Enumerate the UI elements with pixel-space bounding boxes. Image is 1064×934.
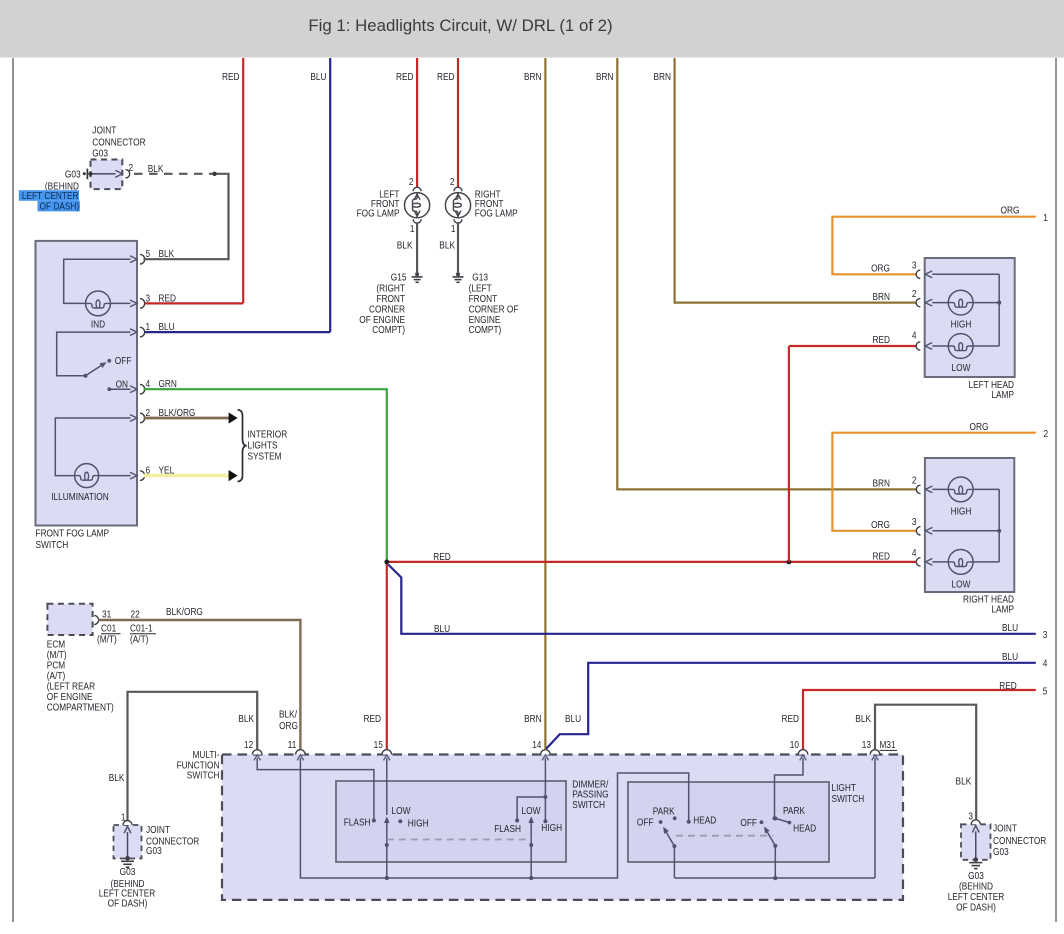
svg-text:OFF: OFF [637, 818, 654, 829]
svg-text:1: 1 [1043, 213, 1048, 224]
svg-text:12: 12 [244, 740, 254, 751]
svg-text:LEFT CENTER: LEFT CENTER [22, 191, 79, 202]
svg-text:RED: RED [873, 551, 891, 562]
svg-text:BLK: BLK [439, 241, 455, 252]
svg-text:BLU: BLU [434, 624, 450, 635]
svg-text:ORG: ORG [1001, 206, 1020, 217]
svg-text:IND: IND [91, 319, 105, 330]
svg-text:LEFT CENTER: LEFT CENTER [948, 892, 1005, 903]
svg-text:(M/T): (M/T) [47, 650, 67, 661]
svg-text:HEAD: HEAD [693, 816, 716, 827]
svg-text:15: 15 [374, 740, 384, 751]
svg-text:C01: C01 [101, 624, 117, 635]
svg-text:3: 3 [146, 293, 151, 304]
svg-text:OF DASH): OF DASH) [956, 902, 996, 913]
svg-text:G03: G03 [968, 871, 984, 882]
svg-text:RED: RED [222, 72, 240, 83]
svg-text:RED: RED [159, 293, 177, 304]
svg-text:HIGH: HIGH [408, 819, 429, 830]
svg-text:FOG LAMP: FOG LAMP [357, 209, 400, 220]
svg-text:2: 2 [912, 289, 917, 300]
svg-text:COMPT): COMPT) [372, 325, 405, 336]
svg-text:JOINT: JOINT [92, 126, 116, 137]
svg-text:BLK: BLK [397, 241, 413, 252]
svg-text:1: 1 [146, 322, 151, 333]
svg-text:BRN: BRN [873, 292, 891, 303]
svg-text:BLU: BLU [159, 322, 175, 333]
svg-text:1: 1 [451, 224, 456, 235]
svg-text:OF DASH): OF DASH) [40, 201, 80, 212]
svg-text:BRN: BRN [524, 714, 542, 725]
svg-text:OFF: OFF [740, 818, 757, 829]
svg-text:RED: RED [782, 714, 800, 725]
svg-text:FRONT: FRONT [469, 294, 498, 305]
svg-text:SWITCH: SWITCH [36, 540, 69, 551]
svg-text:G15: G15 [391, 272, 407, 283]
svg-text:BLU: BLU [1002, 652, 1018, 663]
svg-text:3: 3 [912, 517, 917, 528]
svg-text:BRN: BRN [596, 72, 614, 83]
svg-text:G03: G03 [120, 867, 136, 878]
svg-text:FLASH: FLASH [344, 818, 371, 829]
svg-text:SWITCH: SWITCH [187, 771, 220, 782]
svg-text:M31: M31 [880, 740, 896, 751]
svg-text:ENGINE: ENGINE [469, 315, 501, 326]
svg-text:ORG: ORG [871, 520, 890, 531]
svg-text:BRN: BRN [873, 479, 891, 490]
svg-text:SWITCH: SWITCH [832, 794, 865, 805]
svg-text:ECM: ECM [47, 640, 65, 651]
svg-text:ORG: ORG [871, 263, 890, 274]
svg-text:(LEFT: (LEFT [469, 284, 492, 295]
svg-text:BLU: BLU [310, 72, 326, 83]
svg-text:G03: G03 [65, 169, 81, 180]
svg-text:BLK: BLK [238, 714, 254, 725]
svg-text:RED: RED [433, 552, 451, 563]
svg-text:3: 3 [912, 260, 917, 271]
svg-text:OFF: OFF [115, 356, 132, 367]
svg-text:RED: RED [364, 714, 382, 725]
svg-text:2: 2 [1044, 429, 1049, 440]
svg-text:G03: G03 [92, 148, 108, 159]
svg-text:HIGH: HIGH [951, 320, 972, 331]
svg-text:4: 4 [1043, 658, 1048, 669]
svg-text:22: 22 [131, 610, 141, 621]
svg-text:OF ENGINE: OF ENGINE [359, 315, 405, 326]
svg-text:LIGHTS: LIGHTS [248, 441, 278, 452]
svg-text:FOG LAMP: FOG LAMP [475, 209, 518, 220]
svg-text:OF ENGINE: OF ENGINE [47, 692, 93, 703]
svg-text:LOW: LOW [952, 363, 971, 374]
svg-text:FRONT FOG LAMP: FRONT FOG LAMP [36, 529, 110, 540]
svg-text:LAMP: LAMP [991, 604, 1014, 615]
svg-text:(BEHIND: (BEHIND [959, 881, 993, 892]
svg-text:HIGH: HIGH [541, 823, 562, 834]
svg-text:PARK: PARK [653, 807, 675, 818]
svg-text:CORNER: CORNER [369, 304, 405, 315]
svg-text:CONNECTOR: CONNECTOR [92, 138, 145, 149]
svg-text:(A/T): (A/T) [130, 635, 148, 646]
svg-text:BLK: BLK [956, 777, 972, 788]
svg-text:13: 13 [862, 740, 872, 751]
svg-text:(A/T): (A/T) [47, 671, 65, 682]
svg-text:4: 4 [912, 331, 917, 342]
svg-text:PCM: PCM [47, 661, 65, 672]
svg-text:31: 31 [102, 610, 112, 621]
svg-text:COMPT): COMPT) [469, 325, 502, 336]
svg-text:OF DASH): OF DASH) [108, 899, 148, 910]
svg-text:LOW: LOW [522, 806, 541, 817]
svg-text:RED: RED [873, 335, 891, 346]
svg-text:Fig 1: Headlights Circuit, W/: Fig 1: Headlights Circuit, W/ DRL (1 of … [308, 16, 612, 35]
svg-text:JOINT: JOINT [146, 825, 170, 836]
svg-text:BLK: BLK [148, 164, 164, 175]
svg-text:G03: G03 [993, 847, 1009, 858]
svg-text:3: 3 [1043, 630, 1048, 641]
svg-text:10: 10 [790, 740, 800, 751]
svg-text:LIGHT: LIGHT [832, 783, 856, 794]
svg-text:BRN: BRN [654, 72, 672, 83]
svg-text:PARK: PARK [783, 806, 805, 817]
svg-text:BLU: BLU [565, 714, 581, 725]
svg-text:5: 5 [1043, 687, 1048, 698]
svg-text:BLU: BLU [1002, 623, 1018, 634]
svg-text:LOW: LOW [952, 579, 971, 590]
svg-text:2: 2 [409, 177, 414, 188]
svg-text:1: 1 [410, 224, 415, 235]
svg-text:BLK: BLK [855, 714, 871, 725]
svg-text:RED: RED [396, 72, 414, 83]
svg-text:(RIGHT: (RIGHT [376, 284, 405, 295]
svg-text:HIGH: HIGH [951, 507, 972, 518]
svg-text:LAMP: LAMP [991, 390, 1014, 401]
svg-text:14: 14 [532, 740, 542, 751]
svg-text:11: 11 [288, 740, 297, 751]
svg-text:4: 4 [912, 548, 917, 559]
svg-text:ON: ON [116, 379, 128, 390]
svg-text:SWITCH: SWITCH [572, 800, 605, 811]
svg-text:ORG: ORG [970, 422, 989, 433]
svg-text:FLASH: FLASH [494, 824, 521, 835]
svg-text:G13: G13 [472, 272, 488, 283]
svg-text:C01-1: C01-1 [130, 624, 153, 635]
svg-text:SYSTEM: SYSTEM [248, 451, 282, 462]
svg-text:BLK/ORG: BLK/ORG [166, 607, 203, 618]
svg-text:ORG: ORG [279, 721, 298, 732]
svg-text:(M/T): (M/T) [97, 635, 117, 646]
svg-text:BLK: BLK [109, 773, 125, 784]
svg-text:INTERIOR: INTERIOR [248, 430, 288, 441]
svg-text:CONNECTOR: CONNECTOR [993, 836, 1046, 847]
svg-text:RED: RED [437, 72, 455, 83]
svg-text:BRN: BRN [524, 72, 542, 83]
svg-text:2: 2 [912, 475, 917, 486]
svg-text:BLK/: BLK/ [279, 710, 297, 721]
svg-text:CORNER OF: CORNER OF [469, 304, 519, 315]
svg-text:JOINT: JOINT [993, 823, 1017, 834]
svg-text:FRONT: FRONT [376, 294, 405, 305]
svg-text:2: 2 [450, 177, 455, 188]
svg-text:G03: G03 [146, 846, 162, 857]
svg-text:2: 2 [129, 163, 134, 174]
svg-text:COMPARTMENT): COMPARTMENT) [47, 703, 114, 714]
svg-text:ILLUMINATION: ILLUMINATION [51, 492, 109, 503]
svg-text:LOW: LOW [392, 806, 411, 817]
svg-text:HEAD: HEAD [793, 823, 816, 834]
svg-text:(LEFT REAR: (LEFT REAR [47, 682, 95, 693]
svg-text:RED: RED [999, 681, 1017, 692]
